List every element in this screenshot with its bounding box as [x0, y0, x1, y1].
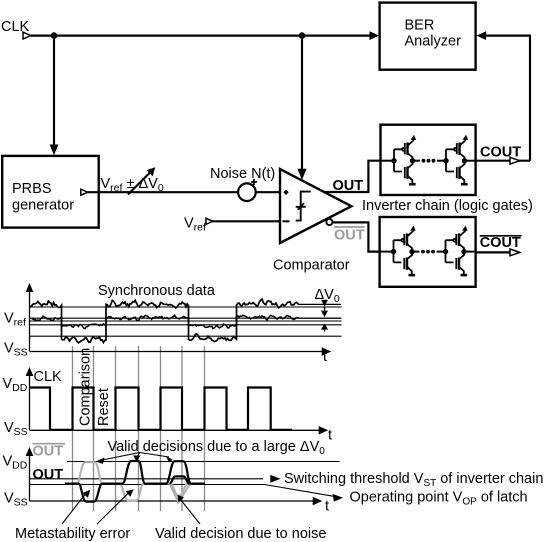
panel3 t axis [30, 500, 314, 502]
CLK input marker [23, 32, 31, 39]
node CLK junction to PRBS [51, 32, 58, 39]
wire CLK down to comparator clock input [301, 36, 303, 169]
label COUTbar [480, 235, 522, 237]
svg-text:t: t [328, 428, 332, 444]
arrow into BER analyzer left [370, 31, 380, 40]
inverter chain box lower [380, 217, 476, 287]
label OUTbar (gray) [334, 226, 365, 228]
variability arrow over label [128, 171, 152, 195]
wire PRBS output to comparator [88, 191, 280, 193]
PRBS output marker [81, 189, 88, 195]
panel1 t axis [30, 351, 323, 353]
svg-text:Valid decision due to noise: Valid decision due to noise [155, 526, 326, 542]
wire CLK to BER analyzer [31, 34, 372, 36]
clock-edge grid lines [73, 346, 205, 511]
arrow into PRBS generator top [50, 145, 59, 156]
COUT output marker [510, 157, 520, 164]
comparator U1 triangle [280, 169, 351, 243]
svg-text:CLK: CLK [34, 369, 63, 385]
arrow valid decision due to noise [181, 500, 201, 525]
wire CLK down to PRBS generator [53, 36, 55, 145]
wire Vref to comparator [213, 220, 280, 222]
data trace extensions [298, 304, 341, 318]
BER analyzer box U3 [380, 3, 476, 70]
arrow clock into comparator [297, 169, 306, 180]
svg-text:PRBS: PRBS [12, 181, 52, 197]
latch symbol inside comparator [296, 192, 311, 221]
svg-text:Noise N(t): Noise N(t) [210, 166, 275, 182]
svg-text:COUT: COUT [480, 144, 521, 160]
OUTbar trace (gray) [65, 462, 205, 502]
VDD level line [67, 461, 340, 463]
data trace small swing [30, 315, 299, 328]
wire COUT [477, 160, 530, 162]
inverter cells lower [381, 226, 477, 276]
panel1 y axis [29, 290, 31, 352]
svg-text:generator: generator [12, 197, 74, 213]
plus sign at noise source [251, 179, 257, 185]
reference levels [30, 307, 342, 336]
comparator plus input mark [283, 190, 288, 195]
arrow to operating point text [333, 494, 343, 502]
wire OUT [324, 161, 381, 192]
svg-text:Reset: Reset [96, 388, 112, 426]
svg-text:Comparator: Comparator [273, 257, 350, 273]
svg-text:Comparison: Comparison [78, 348, 94, 426]
arrow to switching threshold text [270, 475, 280, 483]
inverter chain box upper [381, 125, 476, 195]
dV0 dimension arrows [321, 300, 328, 307]
OUT trace (black) [65, 461, 205, 502]
svg-text:BER: BER [405, 17, 435, 33]
VST threshold line [30, 478, 264, 480]
svg-text:Metastability error: Metastability error [15, 526, 130, 542]
arrow into BER analyzer right [477, 31, 487, 40]
svg-text:Inverter chain (logic gates): Inverter chain (logic gates) [362, 198, 533, 214]
svg-text:OUT: OUT [333, 178, 364, 194]
label OUTbar gray panel3 [33, 443, 66, 445]
panel2 y axis [29, 374, 31, 430]
arrows valid decisions [100, 453, 169, 461]
svg-text:Analyzer: Analyzer [405, 33, 462, 49]
svg-text:OUT: OUT [33, 467, 64, 483]
PRBS generator box U2 [2, 156, 99, 228]
noise summing node [238, 183, 256, 201]
svg-text:Valid decisions due to a large: Valid decisions due to a large ΔV0 [108, 439, 326, 457]
svg-text:OUT: OUT [33, 443, 64, 459]
OUTbar bubble [326, 219, 332, 225]
COUTbar output marker [510, 249, 520, 256]
svg-text:t: t [323, 349, 327, 365]
wire COUTbar [477, 251, 512, 253]
panel2 t axis [30, 429, 320, 431]
VOP line [30, 485, 334, 497]
comparator minus input mark [283, 220, 290, 222]
wire OUTbar [333, 222, 382, 251]
data trace large swing [30, 299, 299, 343]
svg-text:Switching threshold VST of inv: Switching threshold VST of inverter chai… [284, 471, 543, 489]
svg-text:Operating point VOP of latch: Operating point VOP of latch [350, 490, 528, 508]
panel3 y axis [29, 454, 31, 501]
Vref input marker [206, 218, 213, 224]
svg-text:Synchronous data: Synchronous data [98, 283, 216, 299]
CLK waveform [30, 388, 293, 430]
inverter cells upper [381, 135, 477, 185]
svg-text:OUT: OUT [334, 228, 365, 244]
wire COUT feedback to BER analyzer [486, 36, 530, 161]
svg-text:COUT: COUT [480, 235, 521, 251]
arrows metastability [62, 495, 85, 525]
svg-text:t: t [325, 499, 329, 515]
node CLK junction to comparator [299, 32, 306, 39]
